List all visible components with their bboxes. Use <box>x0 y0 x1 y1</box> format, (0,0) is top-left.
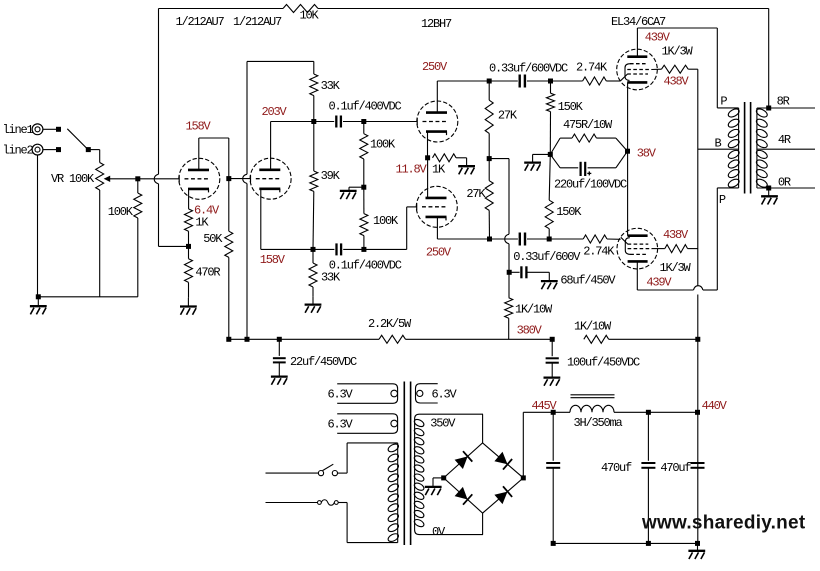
svg-text:2.74K: 2.74K <box>583 245 615 259</box>
node bridge plus <box>521 475 526 480</box>
svg-text:203V: 203V <box>262 105 288 119</box>
svg-text:158V: 158V <box>186 120 212 134</box>
resistor 1K cathode V1 <box>185 209 193 231</box>
capacitor filter after bridge <box>552 412 554 461</box>
node rail bottom mid <box>646 541 651 546</box>
svg-text:350V: 350V <box>430 416 456 430</box>
resistor 39K <box>313 122 315 172</box>
wire B+ rail to preamp <box>229 338 379 340</box>
svg-text:250V: 250V <box>422 60 448 74</box>
svg-text:68uf/450V: 68uf/450V <box>560 274 616 288</box>
wire AC primary bottom lead <box>347 542 398 544</box>
resistor 1K/3W lower screen <box>652 248 665 250</box>
wire HV to bridge top <box>482 414 484 443</box>
svg-text:6.3V: 6.3V <box>328 388 354 402</box>
ground 470R <box>180 307 197 315</box>
wire feedback top rail <box>159 8 284 10</box>
wire B+ rail second stage <box>246 61 248 174</box>
svg-text:2.2K/5W: 2.2K/5W <box>368 317 412 331</box>
tube U1 EL34/6CA7 upper <box>617 49 658 90</box>
svg-text:0.33uf/600V: 0.33uf/600V <box>513 250 581 264</box>
diode D3 bridge bottom-left <box>455 487 468 500</box>
svg-text:12BH7: 12BH7 <box>421 17 452 31</box>
inductor L1 3H/350ma choke <box>553 411 570 413</box>
svg-text:39K: 39K <box>321 169 341 183</box>
wire <box>37 297 39 306</box>
tube V4 12BH7 lower <box>416 186 457 227</box>
coil primary lower <box>727 149 741 189</box>
node 38V <box>625 149 630 154</box>
svg-text:220uf/100VDC: 220uf/100VDC <box>554 177 627 191</box>
svg-text:line1: line1 <box>3 123 34 137</box>
wire B center tap <box>698 148 739 150</box>
resistor 150K upper <box>550 81 552 93</box>
resistor 2.74K upper <box>551 80 583 82</box>
node V4 grid <box>361 247 366 252</box>
node V1 plate / V2 grid <box>226 176 231 181</box>
resistor 100K input <box>137 179 139 193</box>
svg-text:27K: 27K <box>498 108 518 122</box>
svg-text:100K: 100K <box>373 214 399 228</box>
ground 33K lower <box>305 305 322 313</box>
capacitor 0.1uf/400VDC lower <box>337 243 342 255</box>
resistor 1K bias 12BH7 <box>433 154 457 162</box>
coil secondary lower <box>755 149 769 189</box>
svg-text:11.8V: 11.8V <box>396 162 428 176</box>
svg-text:438V: 438V <box>664 74 690 88</box>
resistor 100K grid leak lower <box>363 187 365 213</box>
resistor 1K/10W vertical <box>508 272 510 298</box>
svg-text:1K: 1K <box>432 162 446 176</box>
svg-text:0.1uf/400VDC: 0.1uf/400VDC <box>329 259 402 273</box>
resistor 470R <box>188 246 190 258</box>
svg-text:445V: 445V <box>532 399 558 413</box>
input jack line1 <box>32 124 43 135</box>
wiper arrow <box>104 176 111 182</box>
node jack2 terminal <box>56 147 61 152</box>
resistor 33K lower <box>312 249 314 263</box>
resistor 2.2K/5W <box>379 335 406 343</box>
potentiometer VR 100K <box>96 163 104 191</box>
svg-text:470R: 470R <box>195 266 220 280</box>
transformer T2 secondary <box>756 108 758 188</box>
node rail to 440V <box>695 337 700 342</box>
wire jack1 <box>43 128 57 130</box>
capacitor 470uf #1 <box>647 412 649 461</box>
wire EL34 lower cathode to 38V <box>627 151 629 236</box>
node rail V2 supply <box>245 337 250 342</box>
svg-text:250V: 250V <box>426 245 452 259</box>
wire V3 cathode to V4 plate <box>427 158 429 198</box>
node grid leak center <box>361 185 366 190</box>
capacitor 0.33uf/600V lower <box>490 238 518 240</box>
svg-text:150K: 150K <box>558 100 584 114</box>
wire bridge minus to ground <box>433 477 444 479</box>
resistor 475R/10W <box>550 138 560 154</box>
svg-text:line2: line2 <box>3 144 34 158</box>
wire bottom P lead <box>717 187 738 189</box>
coil secondary upper <box>755 107 769 149</box>
node cathode network ground <box>548 152 553 157</box>
node EL34 lower grid <box>547 237 552 242</box>
node ground bus <box>36 294 41 299</box>
fuse AC <box>266 502 318 504</box>
svg-text:439V: 439V <box>646 275 672 289</box>
svg-text:33K: 33K <box>321 79 341 93</box>
svg-text:1K: 1K <box>195 216 209 230</box>
resistor 27K lower <box>488 159 490 181</box>
wire 8R tap <box>757 107 815 109</box>
svg-text:38V: 38V <box>637 146 657 160</box>
svg-text:158V: 158V <box>260 253 286 267</box>
coil 6.3V heater winding 2 <box>337 414 397 434</box>
node 445V <box>551 410 556 415</box>
wire AC primary top lead <box>347 442 398 444</box>
switch input selector <box>67 129 87 149</box>
svg-text:0V: 0V <box>432 525 446 539</box>
coil AC primary <box>397 443 399 543</box>
resistor 2.74K lower <box>549 238 583 240</box>
svg-text:440V: 440V <box>702 399 728 413</box>
wire V2 cathode <box>260 189 262 250</box>
svg-text:6.3V: 6.3V <box>328 418 354 432</box>
wire upper coupling <box>314 121 334 123</box>
svg-text:150K: 150K <box>556 205 582 219</box>
transformer T1 core <box>403 382 405 546</box>
coil HV secondary <box>415 414 483 534</box>
node 380V <box>550 337 555 342</box>
svg-text:1K/3W: 1K/3W <box>662 44 694 58</box>
node V4 output <box>487 237 492 242</box>
capacitor 0.1uf/400VDC upper <box>336 116 341 128</box>
capacitor 100uf/450VDC <box>551 339 553 356</box>
wire V2 plate <box>270 122 272 170</box>
wire hop over lower coupling <box>505 234 509 244</box>
wire to V1 grid <box>138 178 179 180</box>
svg-text:22uf/450VDC: 22uf/450VDC <box>290 355 357 369</box>
svg-text:0.1uf/400VDC: 0.1uf/400VDC <box>329 100 402 114</box>
wire hop over V2 grid <box>243 174 247 183</box>
wire hop over 440V rail <box>694 286 703 290</box>
node V2 plate 203V <box>311 119 316 124</box>
wire to center ground <box>349 186 364 188</box>
svg-text:10K: 10K <box>300 9 320 23</box>
ground grid leaks <box>340 191 357 199</box>
coil HV secondary loops <box>413 418 425 528</box>
wire lower coupling <box>313 248 334 250</box>
svg-text:33K: 33K <box>321 271 341 285</box>
wire V1 grid dashes done in triode; cathode lead <box>188 189 190 209</box>
svg-text:470uf: 470uf <box>660 461 691 475</box>
wire PSU bottom rail <box>553 542 697 544</box>
svg-text:100uf/450VDC: 100uf/450VDC <box>567 356 640 370</box>
node V3 grid <box>361 119 366 124</box>
transformer T2 output primary <box>738 108 740 188</box>
node 50K bottom <box>226 337 231 342</box>
node V3 plate coupling <box>487 79 492 84</box>
coil primary upper <box>727 107 741 149</box>
svg-text:4R: 4R <box>778 133 791 147</box>
bridge rectifier diamond <box>444 443 524 513</box>
wire 440V rail vertical <box>697 69 699 285</box>
svg-text:www.sharediy.net: www.sharediy.net <box>641 513 806 534</box>
wire EL34 upper plate <box>636 28 638 57</box>
wire VR bottom <box>99 190 101 297</box>
node 8R <box>766 106 771 111</box>
tube U2 EL34/6CA7 lower <box>617 228 658 269</box>
wire V4 cathode <box>436 217 438 239</box>
diode D1 bridge top-left <box>455 456 468 469</box>
ground 1K 12BH7 <box>458 166 475 174</box>
transformer core <box>744 102 746 194</box>
svg-text:470uf: 470uf <box>601 461 632 475</box>
wire V3 plate to 250V <box>436 81 438 113</box>
wire bridge plus up <box>522 412 524 478</box>
wire input ground bus <box>37 155 39 297</box>
input jack line2 <box>32 144 43 155</box>
capacitor filter after bridge <box>552 468 554 544</box>
capacitor 220uf/100VDC <box>550 154 560 167</box>
wire feedback to cathode node <box>159 245 189 247</box>
node EL34 upper grid <box>548 79 553 84</box>
wire EL34 upper cathode to 38V <box>627 82 629 151</box>
resistor 150K lower <box>549 154 550 200</box>
svg-text:1K/10W: 1K/10W <box>574 320 612 334</box>
node rail bottom left <box>551 541 556 546</box>
svg-text:1K/3W: 1K/3W <box>660 261 692 275</box>
ground 100uf <box>544 378 561 386</box>
node 440V <box>695 410 700 415</box>
svg-text:438V: 438V <box>663 228 689 242</box>
svg-text:P: P <box>719 193 726 207</box>
svg-text:2.74K: 2.74K <box>576 61 608 75</box>
resistor 100K grid leak upper <box>363 122 365 134</box>
coil 6.3V heater winding 1 <box>337 384 397 404</box>
wire feedback left drop <box>158 9 160 175</box>
capacitor 0.33uf/600VDC upper <box>489 80 518 82</box>
svg-text:3H/350ma: 3H/350ma <box>574 416 623 430</box>
wire P top <box>717 107 738 109</box>
ground bridge <box>425 487 442 495</box>
wire to ground <box>533 153 551 155</box>
wire V2 grid from node <box>229 178 250 180</box>
node 22uf tap <box>277 337 282 342</box>
wire 27K mid to dropper <box>489 158 509 160</box>
switch AC power <box>266 472 319 474</box>
node jack1 terminal <box>56 127 61 132</box>
coil 6.3V rectifier heater <box>416 384 438 403</box>
node selector out <box>86 147 91 152</box>
node bridge minus <box>441 475 446 480</box>
ground cathode network <box>524 163 541 171</box>
node 68uf tap <box>507 270 512 275</box>
resistor 27K upper <box>488 81 490 100</box>
svg-text:0.33uf/600VDC: 0.33uf/600VDC <box>489 62 568 76</box>
node 27K mid <box>487 156 492 161</box>
resistor 1K/10W horizontal <box>584 335 609 343</box>
diode D2 bridge top-right <box>494 452 507 465</box>
svg-text:EL34/6CA7: EL34/6CA7 <box>611 15 666 29</box>
svg-text:B: B <box>715 137 722 151</box>
resistor 33K plate load V2 <box>313 61 315 74</box>
diode D4 bridge bottom-right <box>494 492 507 505</box>
wire hop over grid wire <box>154 174 158 184</box>
node V2 cathode 158V <box>311 247 316 252</box>
svg-text:27K: 27K <box>466 187 486 201</box>
node V3 cathode 11.8V <box>425 155 430 160</box>
wire 4R tap <box>757 148 815 150</box>
svg-text:VR 100K: VR 100K <box>51 172 95 186</box>
wire V4 plate lead <box>427 197 429 199</box>
coil AC primary loops <box>387 442 400 543</box>
svg-text:1/212AU7: 1/212AU7 <box>176 15 225 29</box>
wire 440V line <box>614 411 698 413</box>
node rail bottom right <box>695 541 700 546</box>
wire jack2 <box>43 149 57 151</box>
tube V2 1/2 12AU7 <box>250 158 291 199</box>
svg-text:1K/10W: 1K/10W <box>515 303 553 317</box>
capacitor 22uf/450VDC <box>278 339 280 356</box>
wire 0R tap <box>757 187 815 189</box>
node V1 cathode feedback <box>186 244 191 249</box>
tube V1 1/2 12AU7 <box>179 158 220 199</box>
svg-text:380V: 380V <box>517 323 543 337</box>
ground input bus <box>30 306 47 314</box>
tube V3 12BH7 upper <box>417 101 458 142</box>
svg-text:8R: 8R <box>777 95 790 109</box>
svg-text:50K: 50K <box>203 232 223 246</box>
svg-text:1/212AU7: 1/212AU7 <box>233 15 282 29</box>
wire feedback right drop to 8R tap <box>768 9 770 109</box>
resistor 1K/3W upper screen <box>652 68 662 70</box>
svg-text:439V: 439V <box>645 30 671 44</box>
wire V1 plate <box>198 138 200 170</box>
svg-text:6.3V: 6.3V <box>432 387 458 401</box>
node grid V1 <box>135 176 140 181</box>
ground PSU <box>688 551 705 559</box>
ground 22uf <box>271 377 288 385</box>
wire V3 cathode <box>427 132 429 158</box>
capacitor 470uf #2 <box>691 463 705 468</box>
svg-text:475R/10W: 475R/10W <box>563 118 613 132</box>
svg-text:100K: 100K <box>370 138 396 152</box>
ground 0R <box>761 196 778 204</box>
node cap2 tap <box>646 410 651 415</box>
ground 68uf <box>541 281 558 289</box>
resistor 50K plate load V1 <box>228 179 230 232</box>
wire selector to VR <box>91 149 100 151</box>
node 0R <box>766 186 771 191</box>
svg-text:0R: 0R <box>778 176 791 190</box>
svg-text:P: P <box>720 95 727 109</box>
resistor 10K feedback <box>283 5 318 13</box>
svg-text:100K: 100K <box>108 205 134 219</box>
capacitor 68uf/450V <box>509 271 519 273</box>
wire HV to bridge bottom <box>482 513 484 535</box>
